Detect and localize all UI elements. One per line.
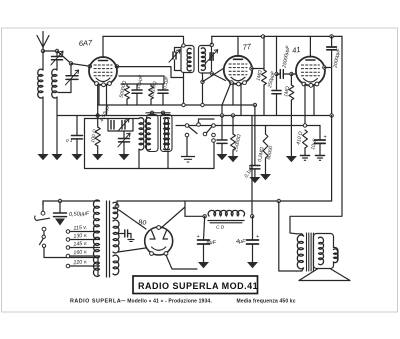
capacitor 0,1uF mid: [217, 116, 227, 155]
wire V1 top cap: [102, 36, 104, 57]
node 77 plate: [250, 67, 253, 70]
capacitor 10uF cathode: [315, 126, 325, 156]
svg-text:C D: C D: [216, 225, 225, 231]
node det junction: [275, 72, 278, 75]
IF2 can frame 1: [147, 115, 159, 152]
node IFT1 return: [201, 80, 204, 83]
IFT1 tank A loop: [181, 46, 194, 73]
label 4uF: [236, 234, 259, 245]
ground 0,1uF det: [249, 177, 260, 183]
choke coil: [208, 210, 245, 216]
trimmer osc: [118, 119, 129, 131]
label 50000ohm: [119, 80, 129, 98]
tap 145 v.: [66, 241, 99, 250]
wire 77 plate: [252, 68, 265, 70]
label 10uuF: [136, 74, 145, 90]
node mains cap: [58, 199, 61, 202]
label 4-50uuF: [99, 103, 112, 123]
IF2 can frame 2: [161, 115, 173, 152]
wire L2 to ground: [56, 97, 58, 154]
svg-text:RADIO SUPERLA: RADIO SUPERLA: [70, 299, 121, 305]
node C grid: [69, 62, 72, 65]
node K 6A7 cathode: [96, 114, 99, 117]
wire B+ drop: [276, 36, 278, 74]
svg-text:0 1: 0 1: [66, 138, 73, 143]
resistor 410ohm: [303, 130, 308, 156]
wire 80 anode bot: [118, 248, 146, 252]
label 1Mohm plate: [256, 69, 264, 81]
label 0,50uuF: [69, 211, 90, 218]
tube V1 6A7: [89, 57, 117, 87]
wire switch stub: [199, 119, 215, 123]
wire 41 pin a: [304, 84, 306, 126]
svg-text:4μF: 4μF: [236, 239, 246, 245]
node 41 plate: [323, 66, 326, 69]
switch contact 6: [212, 133, 216, 137]
node rail1 end: [253, 103, 256, 106]
wire bus B-: [85, 119, 215, 169]
wire rail R1: [103, 36, 184, 45]
speaker hum coil: [334, 249, 338, 263]
label C D: [216, 225, 225, 231]
wire grid diagonal: [57, 51, 71, 64]
tap 160 v.: [66, 249, 99, 258]
transformer primary: [93, 200, 99, 276]
coil osc B: [146, 118, 151, 150]
ground 25000ohm: [228, 156, 239, 162]
switch mains 1a: [41, 211, 45, 215]
ground 4uF: [247, 262, 258, 268]
ground padder: [119, 154, 130, 160]
wire IFT1 b down: [202, 73, 204, 105]
ground L2: [52, 154, 63, 160]
svg-text:RADIO SUPERLA MOD.41: RADIO SUPERLA MOD.41: [138, 281, 258, 291]
capacitor 0,1uF det: [250, 105, 260, 177]
choke core: [208, 221, 244, 223]
svg-text:+: +: [324, 135, 327, 141]
node V1 grid pin: [88, 65, 91, 68]
ground 410ohm bar: [300, 156, 309, 161]
node 41 grid: [290, 72, 293, 75]
node 41 cathode: [303, 124, 306, 127]
label 0,1Mohm: [150, 81, 159, 97]
tap 115 v.: [66, 225, 99, 234]
label 0,1uF row: [162, 75, 171, 89]
label 77: [242, 42, 252, 52]
wire L1 to ground: [42, 97, 44, 154]
capacitor 0,1 left: [72, 116, 83, 155]
tube V2 77: [224, 56, 252, 86]
wire 77 pin b: [240, 84, 242, 116]
switch mains 1b: [42, 227, 46, 231]
transformer sec top: [113, 202, 119, 218]
svg-text:+: +: [256, 234, 259, 240]
wire rail R1b: [212, 35, 342, 37]
wire field drop: [279, 201, 297, 271]
wire comp row top: [121, 83, 164, 85]
wire IFT1 a down: [183, 73, 185, 106]
caption line: [70, 299, 296, 305]
tap 220 v.: [66, 259, 99, 268]
label 6A7: [79, 38, 94, 48]
tuning cap C2: [58, 64, 79, 93]
capacitor 0,1uF row: [158, 84, 168, 105]
ground 100ohm: [92, 154, 103, 160]
title box: [133, 276, 258, 294]
svg-text:— Modello « 41 » - Produzion: — Modello « 41 » - Produzione 1934.: [121, 299, 213, 305]
wire 80 output: [166, 255, 197, 269]
node osc top1: [150, 111, 153, 114]
node IFT1 top a: [182, 44, 185, 47]
node rail top right: [330, 35, 333, 38]
node choke in: [203, 215, 206, 218]
label 80: [138, 217, 147, 227]
wire 77 pin a: [232, 83, 234, 105]
ground 8uF: [198, 262, 209, 268]
mains cord hook: [35, 216, 38, 221]
node B+ mid: [330, 114, 333, 117]
antenna: [37, 32, 49, 52]
node IFT1 bot b: [210, 72, 213, 75]
switch contact 1: [185, 124, 189, 128]
svg-text:41: 41: [292, 45, 302, 55]
ground 1Mohm grid: [286, 156, 297, 162]
wire osc loop: [85, 119, 134, 132]
resistor 1Mohm grid: [289, 74, 294, 156]
wire rail heater: [117, 200, 332, 202]
wire choke drop: [185, 201, 205, 216]
resistor 1Mohm plate: [262, 36, 267, 115]
coil L1 antenna: [38, 51, 43, 98]
wire osc tops: [146, 113, 170, 115]
wire mains top: [43, 201, 100, 205]
padder cap variable: [118, 131, 130, 154]
switch mains 2b: [42, 244, 45, 247]
capacitor 2000uuF: [327, 36, 337, 115]
wire 100ohm to gnd: [97, 146, 99, 154]
wire 41 pin b: [313, 85, 315, 116]
capacitor osc fixed: [111, 121, 114, 129]
wire grid X diag1: [212, 74, 226, 81]
svg-text:160 v.: 160 v.: [73, 249, 87, 256]
node tankB rail: [201, 103, 204, 106]
switch contact 5: [212, 124, 216, 128]
wire 80 anode 1: [116, 201, 118, 206]
label 250uuF: [267, 70, 277, 90]
wire 77 grid cap: [237, 36, 239, 56]
node osc top2: [161, 111, 164, 114]
wire ant to C1: [43, 50, 57, 52]
node A ant junction: [41, 49, 44, 52]
ground L1: [38, 154, 49, 160]
label 410ohm: [296, 131, 305, 146]
node 0,1uF mid: [220, 114, 223, 117]
label 1Mohm grid: [283, 85, 291, 97]
center tap cap: [118, 230, 134, 242]
trimmer IFT1 b: [206, 50, 218, 64]
svg-text:8μF: 8μF: [207, 240, 217, 246]
svg-text:8o: 8o: [138, 217, 147, 227]
switch contact 3: [197, 123, 201, 127]
output transformer primary: [297, 234, 304, 271]
coil IFT1 b: [201, 48, 205, 71]
ground switch bar: [182, 157, 195, 163]
wire choke feed: [251, 116, 253, 217]
resistor 100ohm: [95, 127, 100, 146]
coil IFT1 a: [187, 48, 191, 71]
node rail77: [261, 35, 264, 38]
svg-text:+: +: [197, 234, 200, 240]
switch mains lever2: [40, 239, 44, 245]
node V1 plate pin: [115, 65, 118, 68]
capacitor 0,50uuF: [54, 201, 67, 226]
coil IF2 b: [165, 118, 170, 150]
label 100ohm: [90, 129, 98, 144]
capacitor 10uuF: [132, 84, 142, 105]
switch contact 4: [203, 132, 207, 136]
wire switch down: [44, 248, 98, 275]
wire rail mid1: [98, 104, 255, 106]
capacitor 4uF: [247, 216, 259, 262]
resistor 50000ohm: [125, 84, 130, 105]
wire 41 grid cap: [309, 36, 311, 57]
node 25000ohm: [231, 114, 234, 117]
speaker voice coil: [319, 237, 324, 265]
wire osc bottom b: [167, 152, 169, 169]
wire 80 plate up: [161, 207, 185, 228]
wire V1 pin b: [106, 85, 108, 116]
coil L2 secondary: [52, 69, 57, 98]
wire osc bottom a: [138, 150, 140, 169]
node B: [55, 49, 58, 52]
label 8uF: [197, 234, 217, 246]
svg-text:130 v.: 130 v.: [73, 233, 87, 240]
label plus 10uF: [324, 135, 327, 141]
switch lever 2: [207, 127, 213, 133]
switch mains 2a: [42, 235, 45, 238]
wire grid 41: [291, 73, 296, 75]
svg-text:220 v.: 220 v.: [72, 259, 87, 266]
wire grid X diag2: [203, 68, 224, 82]
output transformer core: [307, 233, 314, 271]
wire 41 plate: [324, 67, 331, 69]
svg-text:145 v.: 145 v.: [73, 241, 87, 248]
label 25000uuF: [281, 44, 291, 69]
node choke out: [251, 215, 254, 218]
wire V1 plate: [117, 67, 184, 78]
transformer core: [107, 201, 110, 277]
switch contact 7: [212, 139, 216, 143]
ground cap 0,1 left: [72, 154, 83, 160]
tube V3 41: [296, 57, 325, 88]
label 41: [292, 45, 302, 55]
trimmer IFT1 a: [169, 48, 181, 71]
speaker cone: [299, 269, 350, 281]
wire switch link: [43, 231, 45, 235]
node tankA rail: [182, 103, 185, 106]
svg-text:6A7: 6A7: [79, 38, 94, 48]
speaker body: [314, 234, 339, 269]
wire IFT1 b up: [211, 36, 213, 44]
wire V1 cathode down: [97, 85, 99, 128]
capacitor 25000uuF coupling: [277, 70, 292, 79]
label 2000uuF: [332, 47, 342, 69]
wire osc top jog: [133, 118, 139, 120]
wire 77 cathode diag: [222, 83, 231, 116]
wire switch gnd: [186, 137, 188, 156]
tube V4 80: [145, 226, 173, 256]
node IFT1 top b: [210, 43, 213, 46]
ground 0,2Mohm: [260, 174, 271, 180]
coil IF2 a: [164, 118, 169, 150]
capacitor 8uF: [198, 216, 210, 262]
resistor 25000ohm: [231, 116, 236, 157]
wire V2 long: [290, 36, 342, 233]
switch contact 2: [185, 133, 189, 137]
label 0,2Mohm: [257, 146, 266, 162]
wire switch stub top: [42, 201, 44, 211]
wire grid to V1: [71, 64, 90, 67]
wire 80 anode top: [119, 210, 146, 229]
node heater a: [277, 199, 280, 202]
transformer sec bot: [113, 255, 119, 275]
ground 0,1uF mid: [217, 154, 228, 160]
wire V1 pin a: [98, 85, 100, 105]
ground 10uF bar: [315, 156, 324, 161]
capacitor 250uuF: [272, 74, 281, 116]
label 50000b: [266, 145, 274, 160]
svg-text:Media frequenza 450 kc: Media frequenza 450 kc: [237, 299, 296, 305]
resistor 0,2Mohm: [263, 126, 268, 175]
label 10uF: [310, 137, 318, 150]
switch mains lever1: [37, 218, 49, 220]
svg-text:115 v.: 115 v.: [73, 225, 87, 232]
label 25000ohm: [233, 134, 243, 154]
wire rail mid2: [58, 115, 332, 117]
label 0,1 left: [66, 138, 73, 143]
svg-text:0,50μμF: 0,50μμF: [69, 211, 90, 218]
label 0,1uF det: [243, 164, 255, 179]
wire V1 long: [331, 116, 333, 202]
resistor 0,1Mohm: [149, 84, 154, 105]
IFT1 tank B loop: [199, 46, 212, 74]
tap 130 v.: [66, 233, 99, 242]
switch lever 1: [189, 127, 198, 134]
wire rail mid3: [176, 125, 320, 127]
coil osc A: [139, 118, 144, 150]
wire V1 screen stub: [119, 76, 164, 84]
transformer sec hv: [113, 220, 119, 253]
trimmer C1 antenna: [51, 51, 63, 70]
